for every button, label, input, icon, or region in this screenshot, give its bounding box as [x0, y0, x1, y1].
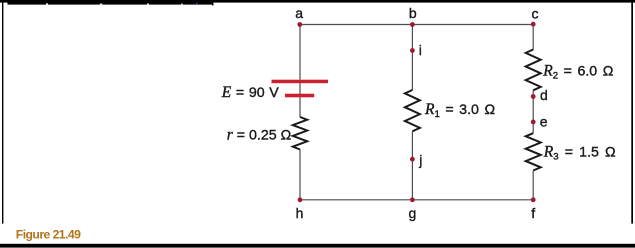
svg-text:i: i	[419, 42, 422, 58]
wire top a-b-c	[300, 24, 533, 26]
svg-text:a: a	[295, 5, 303, 21]
wire c to R2	[532, 25, 534, 50]
node f	[531, 197, 536, 220]
svg-text:j: j	[418, 152, 422, 168]
wire b to R1	[411, 25, 413, 91]
node h	[296, 197, 304, 220]
svg-text:h: h	[296, 205, 304, 221]
resistor R3	[526, 133, 541, 170]
wire R1 to g	[411, 131, 413, 200]
resistor R2	[526, 50, 541, 91]
bottom black bar	[0, 244, 635, 248]
node i	[410, 42, 422, 58]
wire R2 through d and e to R3	[532, 90, 534, 133]
node a	[295, 5, 303, 27]
node j	[410, 152, 422, 168]
svg-text:c: c	[532, 5, 539, 21]
node d	[531, 87, 548, 103]
resistor R1	[405, 90, 420, 131]
wire a to battery	[299, 25, 301, 80]
wire battery to resistor r	[299, 97, 301, 117]
battery EMF source plates	[272, 80, 329, 98]
figure box right border	[631, 0, 633, 224]
svg-text:r = 0.25 Ω: r = 0.25 Ω	[227, 126, 291, 143]
svg-text:d: d	[540, 87, 548, 103]
cropped text remnants top bar	[0, 0, 635, 5]
svg-text:g: g	[409, 205, 417, 221]
svg-text:Figure 21.49: Figure 21.49	[16, 227, 81, 241]
resistor r	[293, 117, 307, 150]
svg-text:e: e	[540, 114, 548, 130]
figure box left border	[2, 0, 3, 224]
svg-text:E = 90 V: E = 90 V	[221, 84, 279, 101]
wire bottom h-g-f	[300, 199, 533, 201]
svg-text:b: b	[409, 5, 417, 21]
wire R3 to f	[532, 171, 534, 200]
svg-text:f: f	[531, 205, 535, 221]
node b	[409, 5, 417, 27]
node g	[409, 197, 417, 220]
node c	[531, 5, 539, 26]
wire r to h	[299, 150, 301, 200]
node e	[531, 114, 548, 130]
wire between battery plates	[299, 83, 301, 94]
